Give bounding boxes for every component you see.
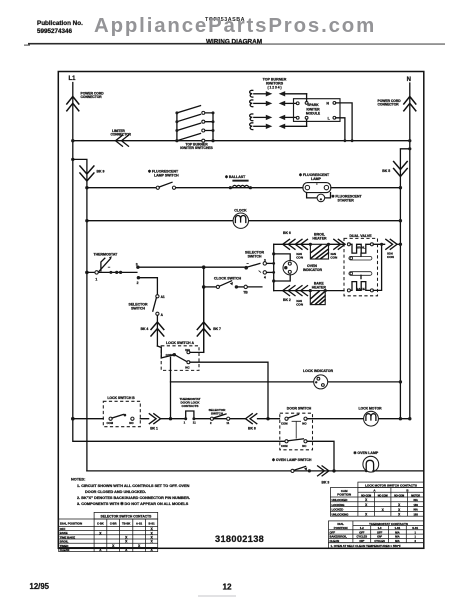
- svg-text:11: 11: [226, 421, 229, 425]
- svg-text:NO: NO: [129, 421, 134, 425]
- power cord connector (N): [378, 97, 416, 111]
- svg-text:THERMOSTAT: THERMOSTAT: [94, 252, 119, 256]
- svg-text:1-2: 1-2: [360, 526, 364, 530]
- svg-text:11: 11: [193, 421, 196, 425]
- svg-text:HEATER: HEATER: [312, 237, 327, 241]
- wire module L to feeder: [336, 118, 347, 142]
- node N: [407, 77, 411, 83]
- lock indicator lamp: [303, 369, 333, 389]
- svg-text:N/A: N/A: [414, 509, 419, 512]
- svg-text:A: A: [161, 313, 164, 317]
- connector BK 7: [197, 322, 221, 336]
- svg-text:MOTOR: MOTOR: [411, 494, 420, 497]
- svg-text:BK 4: BK 4: [141, 327, 149, 331]
- svg-text:N/A: N/A: [395, 535, 400, 539]
- svg-text:INDICATOR: INDICATOR: [303, 268, 323, 272]
- svg-text:B-S1: B-S1: [149, 521, 156, 525]
- svg-text:SELECTOR SWITCH CONTACTS: SELECTOR SWITCH CONTACTS: [101, 515, 153, 519]
- svg-text:POSITION: POSITION: [334, 526, 348, 530]
- svg-text:BK 8: BK 8: [248, 426, 256, 430]
- part number 318002138: [215, 534, 264, 544]
- notes block: [71, 477, 190, 506]
- svg-text:SWITCH: SWITCH: [131, 306, 145, 310]
- svg-text:LOCK INDICATOR: LOCK INDICATOR: [303, 369, 333, 373]
- svg-text:CONNECTOR: CONNECTOR: [111, 133, 132, 137]
- svg-text:3. COMPONENTS WITH ✱ DO NOT AP: 3. COMPONENTS WITH ✱ DO NOT APPEAR ON AL…: [77, 501, 189, 506]
- svg-text:SWITCH: SWITCH: [248, 255, 262, 259]
- header rule: [28, 43, 445, 45]
- svg-text:15S: 15S: [413, 504, 418, 507]
- svg-text:HEATER: HEATER: [312, 285, 327, 289]
- svg-text:COM: COM: [107, 421, 114, 425]
- svg-text:UNLOCKING: UNLOCKING: [332, 513, 349, 517]
- svg-text:A1: A1: [161, 295, 165, 299]
- svg-text:LOCKED: LOCKED: [332, 508, 344, 512]
- wire door NC to lamp line: [307, 441, 336, 472]
- wire BK5 bus lower: [399, 188, 401, 419]
- svg-text:MODULE: MODULE: [306, 112, 321, 116]
- svg-text:DOOR CLOSED AND UNLOCKED.: DOOR CLOSED AND UNLOCKED.: [85, 490, 146, 494]
- top burner ignitor 1: [250, 90, 307, 97]
- svg-text:UNLOCKED: UNLOCKED: [332, 498, 348, 502]
- svg-text:LAMP: LAMP: [311, 177, 322, 181]
- svg-text:1. CIRCUIT SHOWN WITH ALL CONT: 1. CIRCUIT SHOWN WITH ALL CONTROLS SET T…: [77, 484, 190, 488]
- wire lock motor line: [307, 417, 411, 420]
- svg-text:NO: NO: [185, 348, 190, 352]
- connector BK 4: [141, 322, 164, 336]
- connector BK 9: [80, 166, 105, 181]
- wire fluorescent lamp line: [85, 186, 402, 189]
- svg-text:COM: COM: [281, 444, 288, 448]
- svg-text:CYCLES: CYCLES: [357, 535, 368, 539]
- fluorescent lamp switch S2: [148, 170, 179, 190]
- wire broil-bake column: [272, 244, 275, 290]
- svg-text:1-S1: 1-S1: [395, 526, 401, 530]
- svg-text:N/A: N/A: [395, 530, 400, 534]
- svg-text:12/95: 12/95: [30, 582, 50, 591]
- connector BK 8: [246, 414, 257, 431]
- clock motor: [233, 209, 248, 229]
- fluorescent lamp: [299, 173, 331, 193]
- svg-text:C-BK: C-BK: [97, 521, 104, 525]
- svg-text:LOCK MOTOR SWITCH CONTACTS: LOCK MOTOR SWITCH CONTACTS: [365, 483, 417, 487]
- svg-text:BK 9: BK 9: [97, 170, 105, 174]
- svg-text:OFF: OFF: [377, 530, 383, 534]
- svg-text:318002138: 318002138: [215, 534, 264, 544]
- spark igniter module U1: [294, 99, 341, 122]
- wire module N to bus: [336, 103, 354, 142]
- svg-text:A-S1: A-S1: [136, 521, 143, 525]
- clock switch: [202, 277, 262, 295]
- oven ignitor: [274, 254, 323, 281]
- lock switch B: [103, 396, 140, 427]
- svg-text:✱ OVEN LAMP SWITCH: ✱ OVEN LAMP SWITCH: [272, 458, 312, 462]
- svg-text:N: N: [326, 102, 329, 106]
- ballast: [225, 175, 252, 189]
- svg-text:NC: NC: [185, 365, 190, 369]
- svg-text:2. BK”X” DENOTES BACKGUARD CON: 2. BK”X” DENOTES BACKGUARD CONNECTOR PIN…: [77, 496, 190, 500]
- svg-text:1: 1: [95, 278, 97, 282]
- connector BK 3: [318, 466, 330, 485]
- svg-text:NOTES:: NOTES:: [71, 477, 85, 481]
- page header publication number: [24, 20, 83, 45]
- wire broil line: [274, 243, 344, 245]
- svg-text:✱ OVEN LAMP: ✱ OVEN LAMP: [354, 451, 379, 455]
- wire bake line: [274, 290, 344, 292]
- fluorescent starter: [307, 193, 363, 203]
- thermostat door lock contacts: [179, 397, 200, 424]
- wire lock switch B line: [71, 417, 279, 421]
- wire lock indicator line: [171, 380, 403, 383]
- svg-text:LOCK SWITCH A: LOCK SWITCH A: [166, 341, 195, 345]
- svg-text:L1: L1: [69, 76, 77, 82]
- svg-text:✱ BALLAST: ✱ BALLAST: [225, 175, 246, 179]
- dual valve: [344, 234, 378, 296]
- watermark AppliancePartsPros.com: [94, 15, 376, 37]
- wire selector junction column: [202, 265, 206, 352]
- svg-text:1: 1: [184, 421, 186, 425]
- svg-text:3: 3: [264, 259, 266, 263]
- node L1: [69, 76, 77, 82]
- svg-text:DIAL POSITION: DIAL POSITION: [60, 522, 82, 526]
- svg-text:ON*: ON*: [377, 535, 382, 539]
- svg-text:C-BR: C-BR: [110, 521, 117, 525]
- svg-text:CON: CON: [330, 256, 338, 260]
- broil heater: [309, 233, 338, 260]
- footer page 12: [198, 582, 236, 596]
- wire BK7 to NO: [190, 287, 204, 353]
- svg-text:N/A: N/A: [414, 499, 419, 502]
- oven lamp: [354, 451, 379, 472]
- svg-text:LOCK SWITCH B: LOCK SWITCH B: [107, 396, 135, 400]
- svg-text:STARTER: STARTER: [338, 198, 355, 202]
- thermostat contacts table: [329, 521, 425, 548]
- power cord connector (L1): [67, 91, 104, 110]
- WIRING DIAGRAM title: [206, 39, 262, 46]
- schematic border frame: [58, 72, 424, 549]
- svg-text:DUAL VALVE: DUAL VALVE: [349, 234, 372, 238]
- svg-text:CON: CON: [296, 303, 304, 307]
- svg-text:2: 2: [210, 421, 212, 425]
- oven lamp switch: [272, 458, 312, 473]
- svg-text:CLOCK: CLOCK: [234, 209, 247, 213]
- top burner ignitor 4: [250, 123, 307, 130]
- lock switch A: [157, 341, 199, 370]
- top burner ignitor 2: [250, 100, 297, 107]
- connector BK 1: [149, 414, 160, 431]
- lock motor: [358, 407, 382, 427]
- selector switch (oven): [129, 295, 165, 346]
- selector switch lamp contacts: [209, 408, 230, 425]
- svg-text:CLEAN: CLEAN: [60, 548, 70, 552]
- wire lock A NC right: [190, 362, 270, 420]
- svg-text:POSITION: POSITION: [337, 493, 351, 497]
- svg-text:BROIL: BROIL: [356, 245, 366, 249]
- svg-text:3: 3: [136, 263, 138, 267]
- selector switch contacts table: [59, 512, 158, 552]
- svg-text:NC-COM: NC-COM: [378, 494, 388, 497]
- svg-text:TB: TB: [243, 290, 248, 294]
- svg-text:OFF: OFF: [359, 530, 365, 534]
- door switch: [280, 406, 313, 449]
- wire L1 bus: [73, 83, 285, 442]
- lock motor switch contacts table: [330, 482, 424, 516]
- wire valve output: [373, 243, 384, 291]
- thermostat line: [85, 271, 137, 275]
- top burner ignitor 3: [250, 114, 297, 121]
- svg-text:BK 5: BK 5: [382, 169, 390, 173]
- wire selector drop: [140, 278, 157, 295]
- svg-text:2: 2: [137, 281, 139, 285]
- svg-text:NO: NO: [302, 422, 307, 426]
- oven thermostat switch: [94, 252, 123, 281]
- svg-text:BAKE: BAKE: [356, 287, 365, 291]
- svg-text:WIRING DIAGRAM: WIRING DIAGRAM: [206, 39, 262, 46]
- svg-text:NO-COM: NO-COM: [361, 494, 371, 497]
- svg-text:IGNITER SWITCHES: IGNITER SWITCHES: [180, 146, 213, 150]
- wire clock line: [85, 219, 402, 222]
- svg-text:AppliancePartsPros.com: AppliancePartsPros.com: [94, 15, 376, 37]
- svg-text:LOCK MOTOR: LOCK MOTOR: [358, 407, 382, 411]
- svg-text:S-S1: S-S1: [412, 526, 418, 530]
- wire thermostat B line: [140, 266, 246, 268]
- svg-text:CLOCK SWITCH: CLOCK SWITCH: [214, 277, 242, 281]
- svg-text:5995274346: 5995274346: [37, 28, 73, 35]
- svg-text:BK 1: BK 1: [150, 426, 158, 430]
- selector switch oven contacts: [244, 251, 273, 280]
- svg-text:CONNECTOR: CONNECTOR: [81, 95, 103, 99]
- svg-text:CONTACTS: CONTACTS: [182, 404, 199, 408]
- svg-text:BK 2: BK 2: [283, 298, 291, 302]
- svg-text:CON: CON: [296, 256, 304, 260]
- connector BK 2 chevrons: [283, 286, 308, 307]
- connector BK 5: [382, 147, 411, 188]
- footer date 12/95: [30, 582, 50, 591]
- connector BK 6 chevrons: [283, 231, 308, 260]
- wire lock A COM down: [169, 357, 172, 420]
- svg-text:TB-BK: TB-BK: [122, 521, 130, 525]
- svg-text:1-3: 1-3: [378, 526, 382, 530]
- wire oven lamp line: [87, 470, 424, 472]
- wire ignitor1 to module: [306, 94, 308, 102]
- svg-text:CONNECTOR: CONNECTOR: [378, 103, 400, 107]
- svg-text:NC: NC: [302, 444, 306, 448]
- svg-text:THERMOSTAT CONTACTS: THERMOSTAT CONTACTS: [369, 522, 408, 526]
- svg-text:12: 12: [223, 582, 233, 591]
- svg-text:LAMP SWITCH: LAMP SWITCH: [154, 174, 179, 178]
- svg-text:Publication No.: Publication No.: [37, 20, 83, 27]
- svg-text:N: N: [407, 77, 411, 83]
- svg-text:LOCKING: LOCKING: [332, 503, 345, 507]
- top burner ignitors label: [263, 78, 287, 90]
- svg-text:CON: CON: [387, 255, 395, 259]
- svg-text:L: L: [328, 117, 331, 121]
- connector IGN CON output: [386, 239, 402, 259]
- svg-text:( 1 2 3 4 ): ( 1 2 3 4 ): [267, 86, 281, 90]
- wire main feeder: [71, 139, 411, 142]
- svg-text:COM: COM: [281, 422, 288, 426]
- svg-text:BK 7: BK 7: [213, 327, 221, 331]
- bake heater: [309, 281, 327, 304]
- svg-text:4: 4: [264, 275, 266, 279]
- wire BK9 branch: [71, 158, 87, 471]
- wire ignitor4 to module: [306, 119, 308, 126]
- svg-text:DOOR SWITCH: DOOR SWITCH: [287, 406, 312, 410]
- thermostat output contacts: [136, 263, 140, 286]
- model number text: [205, 17, 245, 23]
- svg-text:BK 3: BK 3: [322, 480, 330, 484]
- chevron broil to valve: [334, 239, 345, 249]
- svg-text:15S: 15S: [413, 514, 418, 517]
- svg-text:1. OVEN AT SELF CLEAN TEMPERAT: 1. OVEN AT SELF CLEAN TEMPERATURES > 550…: [331, 544, 401, 548]
- limiter connector chevron: [111, 129, 132, 146]
- top burner igniter switches: [175, 106, 214, 151]
- svg-text:BK 6: BK 6: [283, 231, 291, 235]
- wire N bus: [409, 83, 411, 419]
- svg-text:NO-COM: NO-COM: [394, 494, 404, 497]
